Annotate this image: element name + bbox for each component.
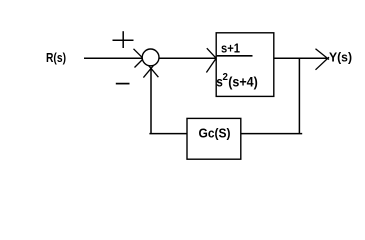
svg-text:(s+4): (s+4) — [228, 74, 258, 90]
svg-text:2: 2 — [223, 72, 228, 83]
wire feedback horizontal left segment — [149, 133, 187, 135]
svg-text:Y(s): Y(s) — [329, 50, 352, 65]
wire summing junction to plant block — [159, 57, 216, 59]
wire feedback horizontal right segment — [241, 133, 302, 135]
wire input line R(s) to summing junction — [84, 57, 143, 59]
plant block G(s) rectangle — [216, 33, 274, 97]
arrowhead at output Y(s) — [316, 49, 330, 70]
svg-text:s+1: s+1 — [221, 40, 240, 55]
wire feedback vertical up to summing junction — [150, 67, 152, 133]
fraction line — [217, 55, 253, 57]
summing junction circle — [142, 49, 159, 66]
controller block Gc(S) rectangle — [187, 118, 241, 159]
arrowhead into plant block — [206, 48, 217, 72]
plus sign — [113, 31, 134, 48]
minus sign — [116, 83, 130, 85]
svg-text:Gc(S): Gc(S) — [199, 125, 231, 140]
arrowhead into summing junction left — [134, 49, 149, 68]
svg-text:R(s): R(s) — [46, 50, 66, 65]
wire plant block to output — [274, 57, 327, 59]
wire takeoff point vertical drop — [298, 58, 300, 133]
arrowhead into summing junction bottom — [143, 66, 158, 78]
